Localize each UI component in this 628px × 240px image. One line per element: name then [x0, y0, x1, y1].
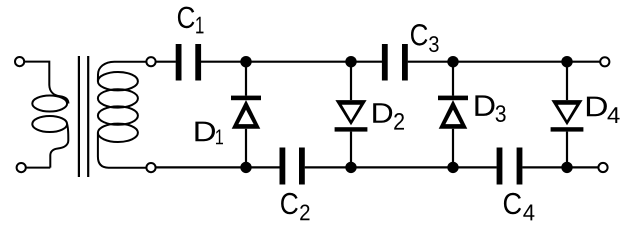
diode D2 — [335, 100, 368, 131]
label C2 — [281, 193, 298, 215]
node F (bottom of D2) — [345, 162, 356, 173]
wire D4 top — [566, 62, 568, 100]
wire top rail: secondary to C1 — [156, 61, 176, 63]
secondary terminal bottom — [146, 163, 155, 172]
capacitor C1 — [176, 44, 201, 81]
wire D3 top — [452, 62, 454, 96]
label C4 — [504, 193, 521, 215]
diode D3 — [438, 96, 468, 129]
wire D1 top — [245, 62, 247, 96]
wire top rail: C1 to C3 — [201, 61, 382, 63]
input terminal bottom-left — [17, 163, 26, 172]
wire bottom rail: C4 to output — [522, 166, 598, 168]
capacitor C4 — [497, 148, 523, 185]
capacitor C2 — [280, 148, 305, 185]
node G (bottom of D3) — [447, 162, 458, 173]
node B (top of D2) — [345, 56, 356, 67]
label D4 — [587, 97, 607, 117]
wire primary bottom lead — [27, 167, 51, 169]
transformer T1 primary winding — [32, 85, 68, 168]
label C1 — [178, 7, 195, 29]
label D1 — [195, 122, 215, 142]
label D3 — [475, 95, 494, 115]
wire D2 bottom — [350, 132, 352, 168]
node A (top of D1) — [240, 56, 251, 67]
capacitor C3 — [382, 44, 408, 81]
wire top rail: C3 to output — [408, 61, 601, 63]
wire D3 bottom — [452, 129, 454, 168]
transformer core — [79, 56, 88, 177]
output terminal bottom-right — [598, 163, 607, 172]
diode D4 — [551, 100, 584, 131]
transformer T1 secondary winding — [98, 62, 146, 168]
wire D2 top — [350, 62, 352, 100]
wire D4 bottom — [566, 132, 568, 168]
label C3 — [411, 24, 427, 46]
node D (top of D4) — [561, 56, 572, 67]
wire bottom rail: C2 to C4 — [305, 166, 497, 168]
secondary terminal top — [146, 57, 155, 66]
wire D1 bottom — [245, 129, 247, 168]
wire primary top lead — [25, 62, 50, 85]
diode D1 — [231, 96, 261, 129]
label D2 — [373, 103, 392, 123]
wire bottom rail: secondary to C2 — [156, 166, 280, 168]
node E (bottom of D1) — [240, 162, 251, 173]
output terminal top-right — [600, 57, 609, 66]
input terminal top-left — [15, 57, 24, 66]
node H (bottom of D4) — [561, 162, 572, 173]
node C (top of D3) — [447, 56, 458, 67]
